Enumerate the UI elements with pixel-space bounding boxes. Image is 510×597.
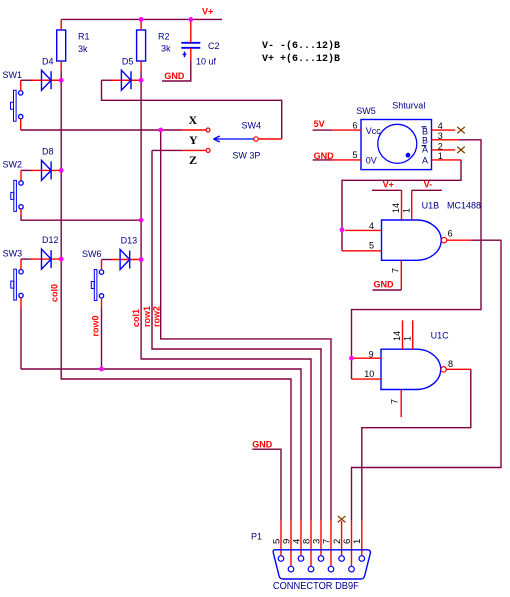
svg-text:Z: Z <box>189 153 197 167</box>
svg-text:7: 7 <box>321 539 332 544</box>
svg-text:14: 14 <box>391 203 401 213</box>
svg-text:GND: GND <box>374 280 395 290</box>
svg-text:5: 5 <box>369 241 374 251</box>
svg-text:14: 14 <box>392 331 402 341</box>
svg-text:3: 3 <box>438 131 443 141</box>
svg-text:1: 1 <box>403 336 413 341</box>
svg-text:D4: D4 <box>42 56 54 66</box>
svg-text:SW2: SW2 <box>3 160 23 170</box>
svg-text:Shturval: Shturval <box>392 101 425 111</box>
svg-text:V+: V+ <box>202 7 213 17</box>
svg-text:6: 6 <box>448 228 453 238</box>
svg-text:D5: D5 <box>122 56 134 66</box>
svg-text:R2: R2 <box>158 32 170 42</box>
svg-text:5V: 5V <box>314 119 325 129</box>
svg-text:GND: GND <box>252 439 272 449</box>
svg-text:P1: P1 <box>251 532 262 542</box>
svg-text:9: 9 <box>369 350 374 360</box>
svg-text:D12: D12 <box>42 235 59 245</box>
svg-text:2: 2 <box>438 141 443 151</box>
svg-text:3k: 3k <box>78 44 88 54</box>
svg-text:10: 10 <box>364 369 374 379</box>
svg-text:1: 1 <box>352 539 363 544</box>
svg-text:Vcc: Vcc <box>366 126 382 136</box>
svg-text:col1: col1 <box>131 309 141 327</box>
svg-text:MC1488: MC1488 <box>447 201 481 211</box>
svg-text:7: 7 <box>390 399 400 404</box>
svg-text:5: 5 <box>353 150 358 160</box>
svg-text:row0: row0 <box>91 315 101 336</box>
svg-text:V-: V- <box>424 180 433 190</box>
svg-text:row2: row2 <box>152 306 162 327</box>
svg-text:SW1: SW1 <box>3 70 23 80</box>
svg-text:4: 4 <box>438 121 443 131</box>
svg-text:V- -(6...12)B: V- -(6...12)B <box>262 40 340 52</box>
svg-text:SW6: SW6 <box>82 249 102 259</box>
svg-text:D8: D8 <box>42 146 54 156</box>
svg-text:3k: 3k <box>161 44 171 54</box>
svg-text:U1B: U1B <box>422 201 440 211</box>
svg-text:SW5: SW5 <box>356 106 376 116</box>
svg-text:10 uf: 10 uf <box>196 57 217 67</box>
svg-text:CONNECTOR DB9F: CONNECTOR DB9F <box>273 580 359 592</box>
svg-text:D13: D13 <box>121 236 138 246</box>
svg-text:0V: 0V <box>366 156 377 166</box>
svg-text:6: 6 <box>353 120 358 130</box>
svg-text:8: 8 <box>448 359 453 369</box>
svg-text:Y: Y <box>189 133 198 147</box>
svg-text:1: 1 <box>438 151 443 161</box>
svg-text:V+: V+ <box>383 180 394 190</box>
svg-text:X: X <box>189 113 198 127</box>
svg-text:R1: R1 <box>78 32 90 42</box>
svg-text:7: 7 <box>391 268 401 273</box>
svg-text:SW4: SW4 <box>242 121 262 131</box>
svg-text:A: A <box>422 156 428 166</box>
svg-text:col0: col0 <box>50 284 60 302</box>
svg-text:SW 3P: SW 3P <box>232 151 260 161</box>
svg-text:U1C: U1C <box>431 331 450 341</box>
svg-text:V+ +(6...12)B: V+ +(6...12)B <box>262 53 340 65</box>
svg-text:1: 1 <box>402 208 412 213</box>
svg-text:C2: C2 <box>208 41 220 51</box>
svg-text:row1: row1 <box>142 306 152 327</box>
svg-text:GND: GND <box>164 71 185 81</box>
svg-text:SW3: SW3 <box>3 249 23 259</box>
svg-text:4: 4 <box>369 221 374 231</box>
